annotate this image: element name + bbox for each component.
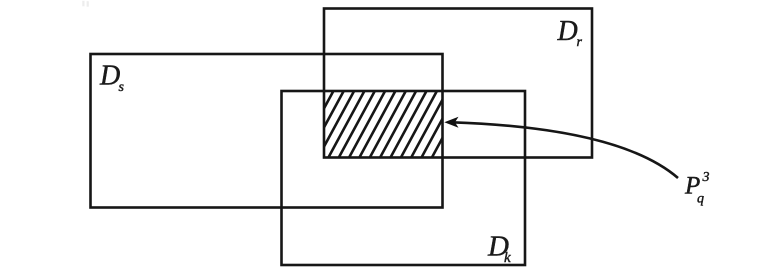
svg-text:r: r bbox=[577, 35, 583, 50]
arrowhead bbox=[444, 117, 458, 128]
svg-text:s: s bbox=[119, 80, 125, 95]
rectangle Dk bbox=[282, 91, 526, 265]
arrow curve to P label bbox=[452, 122, 678, 178]
svg-text:k: k bbox=[504, 250, 511, 266]
rectangle Ds bbox=[91, 54, 443, 208]
svg-text:D: D bbox=[557, 16, 578, 47]
hatched intersection region bbox=[297, 91, 478, 158]
svg-text:3: 3 bbox=[702, 170, 710, 185]
faint scan smudge bbox=[82, 1, 84, 7]
svg-text:D: D bbox=[99, 61, 120, 92]
rectangle Dr bbox=[324, 9, 592, 158]
svg-text:q: q bbox=[697, 192, 704, 207]
